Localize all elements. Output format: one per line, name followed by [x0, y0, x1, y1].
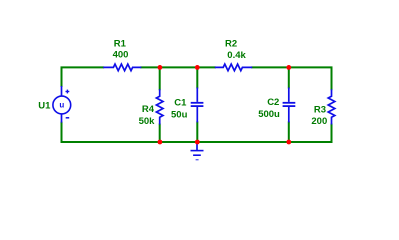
label R3 value 200 [311, 116, 327, 127]
label R4 value 50k [139, 116, 156, 127]
label C1 [174, 98, 187, 109]
label R3 [314, 104, 326, 115]
wire top-right segment (R2 right lead to R3 branch corner) [252, 67, 331, 89]
wire R4 branch bottom [159, 125, 161, 143]
label R2 value 0.4k [227, 50, 246, 61]
wire right vertical below R3 [331, 125, 333, 143]
svg-text:R1: R1 [114, 39, 127, 50]
resistor R3 [328, 89, 335, 124]
node junction dot top C2 [286, 65, 291, 70]
voltage source U1 [53, 86, 71, 123]
svg-text:0.4k: 0.4k [227, 50, 246, 61]
svg-text:R3: R3 [314, 104, 326, 115]
resistor R1 [103, 64, 141, 71]
node junction dot top R4 [158, 65, 163, 70]
svg-text:u: u [59, 101, 64, 110]
wire top-left segment (U1 top to R1 left lead) [62, 67, 104, 86]
wire C2 branch bottom [288, 122, 290, 142]
capacitor C1 [191, 88, 204, 123]
label R1 value 400 [113, 50, 129, 61]
node junction dot bottom R4 [158, 140, 163, 145]
svg-text:200: 200 [311, 116, 327, 127]
wire top-middle segment (R1 right lead to R2 left lead) [141, 66, 215, 68]
wire bottom segment (full bottom rail) [62, 141, 332, 143]
svg-text:C1: C1 [174, 98, 187, 109]
svg-text:U1: U1 [38, 100, 51, 111]
wire R4 branch top [159, 67, 161, 89]
label C1 value 50u [171, 109, 188, 120]
label U1 [38, 100, 51, 111]
label R1 [114, 39, 127, 50]
label C2 value 500u [258, 109, 280, 120]
label R2 [225, 38, 237, 49]
resistor R2 [215, 64, 252, 71]
wire C1 branch bottom [196, 122, 198, 142]
wire C2 branch top [288, 67, 290, 87]
svg-text:C2: C2 [267, 97, 279, 108]
svg-text:400: 400 [113, 50, 129, 61]
resistor R4 [156, 89, 163, 124]
svg-text:R2: R2 [225, 38, 237, 49]
node junction dot bottom C2 [286, 140, 291, 145]
capacitor C2 [283, 88, 296, 123]
wire C1 branch top [196, 67, 198, 87]
svg-text:500u: 500u [258, 109, 280, 120]
node junction dot top C1 [195, 65, 200, 70]
label R4 [142, 104, 155, 115]
svg-text:R4: R4 [142, 104, 155, 115]
node junction dot bottom ground [195, 140, 200, 145]
svg-text:50u: 50u [171, 109, 188, 120]
svg-text:50k: 50k [139, 116, 156, 127]
wire left vertical below U1 [61, 123, 63, 142]
label C2 [267, 97, 279, 108]
ground [191, 142, 204, 160]
